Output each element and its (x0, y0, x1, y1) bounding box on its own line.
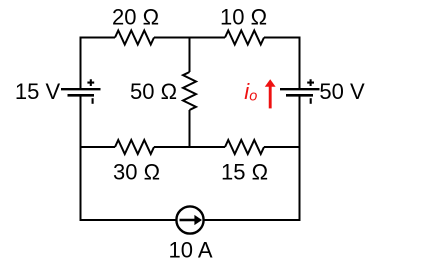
battery V2 plus sign (307, 79, 314, 86)
wire top-left segment (81, 37, 116, 39)
wire middle-center segment (154, 146, 225, 148)
battery V1 minus mark (92, 98, 94, 104)
wire right lower (299, 97, 301, 222)
resistor R4 30ohm zigzag (115, 140, 154, 154)
resistor R5 15ohm zigzag (225, 140, 264, 154)
resistor R2 10ohm zigzag (225, 31, 264, 45)
wire middle vertical upper (189, 37, 191, 73)
wire left lower (80, 97, 82, 222)
wire left upper (80, 37, 82, 89)
battery V2 short plate (286, 94, 313, 97)
battery V1 short plate (68, 94, 95, 97)
svg-text:io: io (244, 79, 257, 105)
current source I1 arrowhead (194, 215, 202, 225)
resistor R3 50ohm zigzag (183, 72, 196, 110)
wire middle vertical lower (189, 110, 191, 148)
svg-text:30 Ω: 30 Ω (113, 160, 160, 185)
svg-text:20 Ω: 20 Ω (112, 5, 159, 30)
battery V1 plus sign (87, 79, 94, 86)
svg-text:15 V: 15 V (15, 79, 61, 104)
battery V2 minus mark (310, 98, 312, 104)
current io arrowhead (red) (265, 79, 276, 87)
battery V2 long plate (280, 88, 320, 90)
current io arrow (red) (269, 87, 272, 109)
wire top-middle segment (154, 37, 225, 39)
wire bottom-right segment (204, 219, 301, 221)
svg-text:10 A: 10 A (168, 238, 212, 263)
svg-text:15 Ω: 15 Ω (221, 160, 268, 185)
wire middle-left segment (80, 146, 116, 148)
battery V1 long plate (61, 88, 101, 90)
svg-text:50 Ω: 50 Ω (130, 79, 177, 104)
svg-text:10 Ω: 10 Ω (220, 5, 267, 30)
wire right upper (299, 37, 301, 89)
wire bottom-left segment (80, 219, 177, 221)
resistor R1 20ohm zigzag (115, 31, 154, 45)
current source I1 arrow shaft (180, 219, 197, 221)
wire top-right segment (264, 37, 300, 39)
current source I1 circle (176, 206, 203, 233)
svg-text:50 V: 50 V (319, 79, 365, 104)
wire middle-right segment (264, 146, 301, 148)
